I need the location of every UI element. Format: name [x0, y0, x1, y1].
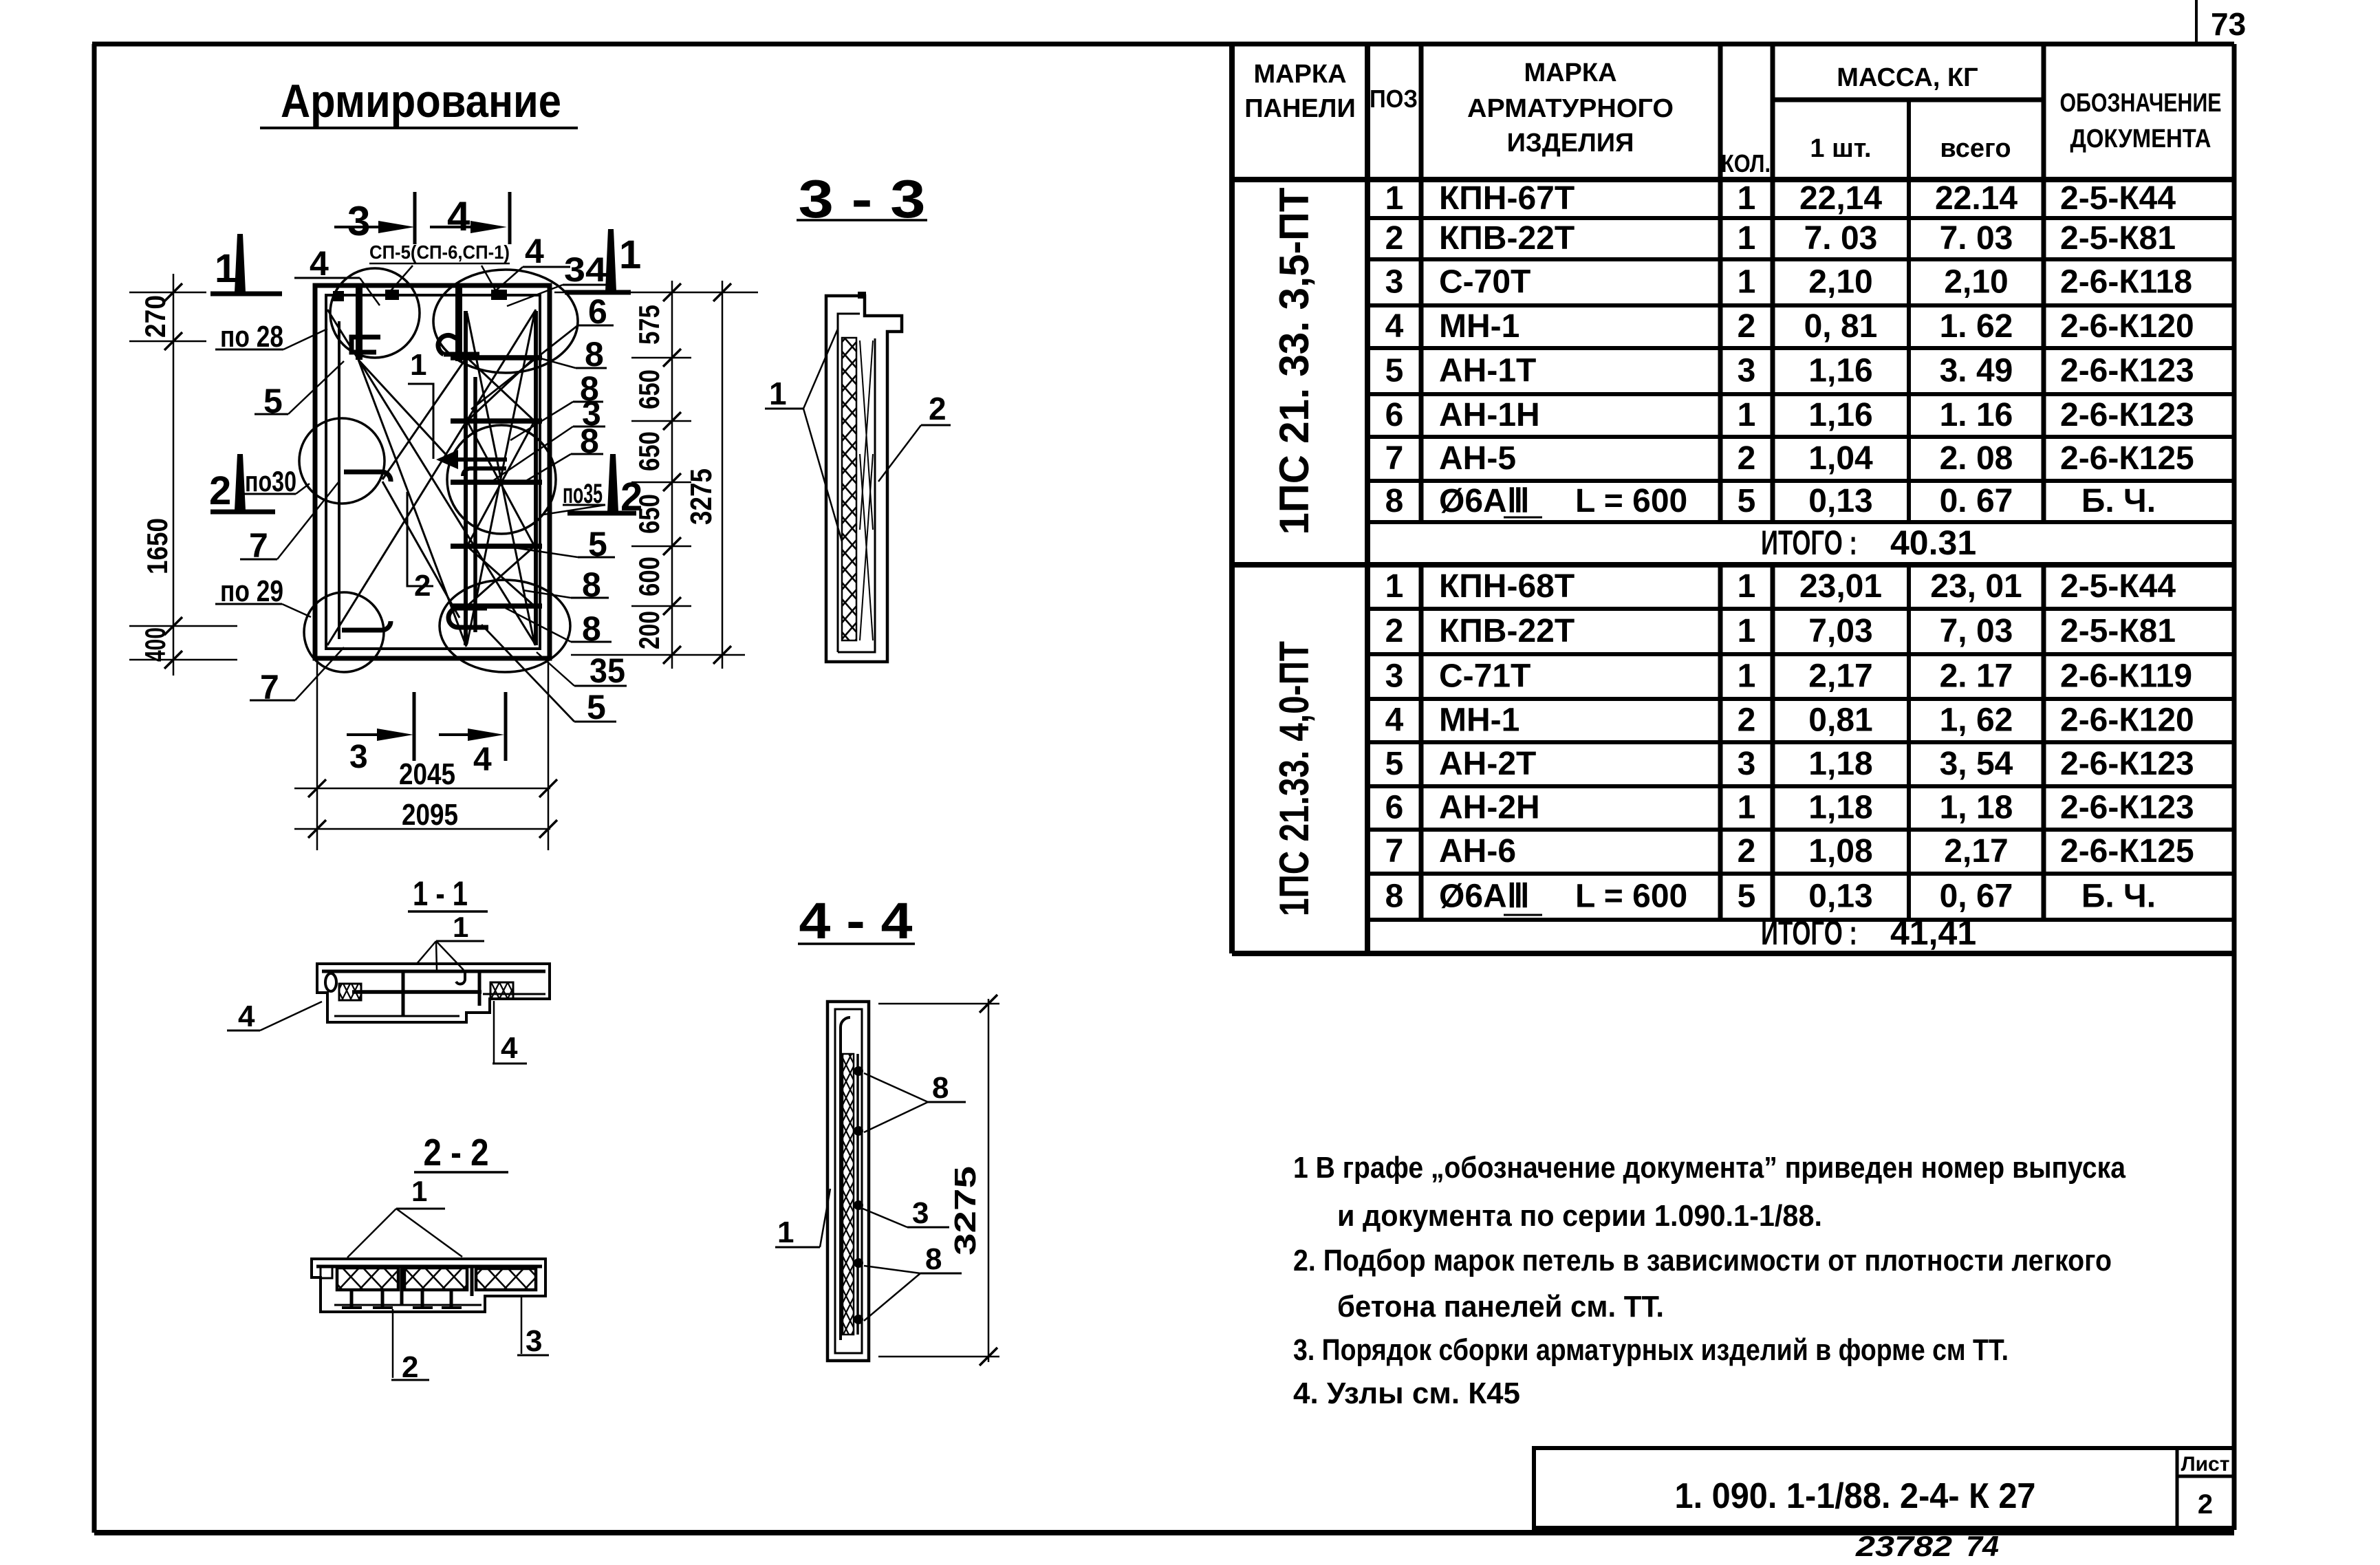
svg-text:ОБОЗНАЧЕНИЕ: ОБОЗНАЧЕНИЕ: [2060, 89, 2222, 118]
underline under III group1: [1504, 517, 1542, 519]
svg-text:4: 4: [1385, 308, 1404, 345]
svg-text:1,16: 1,16: [1808, 397, 1872, 433]
svg-text:7,03: 7,03: [1808, 613, 1872, 649]
svg-text:0,81: 0,81: [1808, 702, 1872, 739]
svg-text:1ПС 21.33. 4,0-ПТ: 1ПС 21.33. 4,0-ПТ: [1271, 641, 1317, 916]
svg-text:3275: 3275: [949, 1166, 982, 1255]
svg-text:1650: 1650: [141, 518, 173, 574]
dim tick 3275 top: [713, 283, 731, 301]
section 4-4 weld dot 5: [854, 1315, 863, 1324]
svg-text:1: 1: [1738, 613, 1756, 649]
svg-text:2-6-К123: 2-6-К123: [2060, 746, 2194, 782]
table outer left border: [1229, 44, 1235, 953]
dimension line 2045: [294, 788, 550, 790]
dim tick right 612: [663, 412, 681, 430]
svg-text:1: 1: [1738, 264, 1756, 301]
svg-text:2,10: 2,10: [1944, 264, 2008, 301]
svg-text:2-6-К120: 2-6-К120: [2060, 308, 2194, 345]
svg-text:35: 35: [589, 651, 625, 690]
table column line (кол/масса): [1771, 44, 1775, 522]
svg-text:АН-1Т: АН-1Т: [1439, 353, 1536, 389]
svg-text:4: 4: [501, 1031, 518, 1065]
hook поз3 top-left: [351, 337, 380, 352]
left dimension line: [173, 274, 175, 676]
table column line (марка/кол): [1718, 44, 1723, 522]
svg-text:2. 17: 2. 17: [1940, 658, 2013, 695]
svg-text:1. 090. 1-1/88. 2-4- К 27: 1. 090. 1-1/88. 2-4- К 27: [1675, 1476, 2036, 1516]
svg-text:2: 2: [1738, 702, 1756, 739]
dim tick left 910: [164, 617, 182, 635]
svg-text:Б. Ч.: Б. Ч.: [2081, 483, 2156, 519]
svg-text:3, 54: 3, 54: [1940, 746, 2013, 782]
section 4-4 КПВ bar: [841, 1017, 850, 1340]
table group1 row line 1: [1367, 216, 2234, 220]
svg-text:2095: 2095: [402, 798, 458, 832]
svg-text:3. Порядок сборки арматурных и: 3. Порядок сборки арматурных изделий в ф…: [1293, 1333, 2009, 1367]
extension line bottom left: [316, 662, 318, 850]
page number tick: [2195, 0, 2198, 44]
svg-text:ИТОГО :: ИТОГО :: [1761, 914, 1857, 952]
svg-text:КПВ-22Т: КПВ-22Т: [1439, 220, 1575, 257]
svg-text:7, 03: 7, 03: [1940, 613, 2013, 649]
section 1-1 left loop: [325, 973, 336, 991]
section 2-2 notch box: [321, 1266, 332, 1278]
svg-text:1: 1: [410, 348, 426, 382]
svg-text:1ПС 21. 33. 3,5-ПТ: 1ПС 21. 33. 3,5-ПТ: [1271, 188, 1317, 535]
section 2-2 box1 leg b: [381, 1290, 385, 1306]
svg-text:3: 3: [912, 1196, 929, 1230]
svg-text:40.31: 40.31: [1890, 524, 1976, 562]
svg-text:5: 5: [1738, 878, 1756, 915]
svg-text:4: 4: [447, 193, 470, 239]
section 3-3 thin strip X 1: [860, 341, 873, 530]
section 3-3 body outline: [826, 296, 902, 662]
title block outline: [1534, 1448, 2234, 1528]
svg-text:АН-2Т: АН-2Т: [1439, 746, 1536, 782]
svg-text:1. 62: 1. 62: [1940, 308, 2013, 345]
svg-text:АН-6: АН-6: [1439, 833, 1516, 870]
svg-text:4. Узлы см. К45: 4. Узлы см. К45: [1293, 1377, 1520, 1410]
ladder long diagonal 1: [467, 313, 534, 644]
svg-text:74: 74: [1966, 1530, 1999, 1562]
СП loop bar top-right: [455, 284, 462, 361]
ladder upper X: [467, 358, 534, 421]
svg-text:3: 3: [1385, 658, 1404, 695]
svg-text:4: 4: [473, 742, 492, 778]
ladder rung 1: [451, 355, 542, 360]
svg-text:2: 2: [929, 391, 946, 427]
section 2-2 divider right: [470, 1266, 474, 1296]
svg-text:73: 73: [2211, 6, 2246, 42]
hook поз5 top-right: [438, 335, 479, 354]
svg-text:0, 81: 0, 81: [1804, 308, 1878, 345]
ladder mid X 2: [467, 421, 534, 546]
svg-text:Лист: Лист: [2181, 1453, 2230, 1476]
extension line right 794: [631, 546, 691, 548]
svg-text:1,18: 1,18: [1808, 746, 1872, 782]
svg-text:С-70Т: С-70Т: [1439, 264, 1530, 301]
dim tick left 959: [164, 651, 182, 669]
svg-text:3: 3: [1738, 353, 1756, 389]
svg-text:3275: 3275: [684, 468, 718, 525]
svg-text:бетона панелей см. ТТ.: бетона панелей см. ТТ.: [1337, 1290, 1664, 1324]
ladder mid X 1: [467, 421, 534, 546]
svg-text:АРМАТУРНОГО: АРМАТУРНОГО: [1467, 94, 1674, 123]
ladder rung 4: [451, 543, 542, 549]
detail circle bottom-left: [304, 592, 384, 672]
svg-text:1: 1: [1738, 568, 1756, 605]
section 4-4 weld dot 4: [854, 1258, 863, 1268]
extension line 910: [129, 625, 237, 627]
section 2-2 body outline: [312, 1259, 545, 1312]
svg-text:ИТОГО :: ИТОГО :: [1761, 524, 1857, 562]
table column line (поз/марка): [1419, 44, 1424, 522]
anchor МН-1 black mark right: [491, 290, 507, 300]
svg-text:2: 2: [1738, 440, 1756, 477]
ladder middle bar: [473, 377, 477, 632]
svg-text:1: 1: [1738, 180, 1756, 217]
section 2-2 box2 leg a: [421, 1290, 424, 1306]
section 2-2 hatched box 2: [404, 1268, 467, 1290]
svg-text:5: 5: [1738, 483, 1756, 519]
table group1 row line 7: [1367, 479, 2234, 483]
ladder rung 3: [451, 479, 542, 485]
svg-text:8: 8: [1385, 483, 1404, 519]
section 1-1 left hatch box: [339, 984, 361, 1000]
svg-text:КПН-68Т: КПН-68Т: [1439, 568, 1575, 605]
svg-text:2,17: 2,17: [1808, 658, 1872, 695]
svg-text:2-5-К44: 2-5-К44: [2060, 568, 2176, 605]
svg-text:400: 400: [139, 627, 171, 662]
drawing sheet frame left border: [92, 44, 97, 1533]
dim tick 3275 bottom: [713, 646, 731, 664]
dim tick left 496: [164, 332, 182, 350]
extension line right 520: [631, 357, 691, 359]
section 3-3 hatch strip: [842, 338, 856, 640]
svg-text:7: 7: [1385, 440, 1404, 477]
table column line (панели/поз): [1365, 44, 1370, 953]
svg-text:L = 600: L = 600: [1575, 878, 1687, 915]
svg-text:L = 600: L = 600: [1575, 483, 1687, 519]
extension line bottom-left: [129, 659, 237, 661]
svg-text:600: 600: [633, 557, 665, 596]
section 1-1 mid hook: [456, 971, 465, 984]
svg-text:2-6-К123: 2-6-К123: [2060, 353, 2194, 389]
svg-text:1 шт.: 1 шт.: [1810, 134, 1871, 163]
section 1-1 inner band: [352, 990, 482, 994]
section 1-1 body outline: [317, 964, 550, 1022]
svg-text:Ø6АⅢ: Ø6АⅢ: [1439, 878, 1530, 915]
detail circle top-left: [330, 268, 420, 358]
svg-text:23, 01: 23, 01: [1930, 568, 2022, 605]
extension line right 701: [631, 482, 691, 484]
svg-text:0, 67: 0, 67: [1940, 878, 2013, 915]
svg-text:23,01: 23,01: [1799, 568, 1882, 605]
svg-text:22,14: 22,14: [1799, 180, 1882, 217]
section 1-1 right inner line: [483, 993, 545, 995]
detail circle mid-right: [447, 425, 556, 534]
section 4-4 inner contour: [835, 1009, 862, 1353]
svg-text:1,08: 1,08: [1808, 833, 1872, 870]
section 2-2 hatched box 1: [337, 1268, 398, 1290]
svg-text:и документа по серии 1.090.1-1: и документа по серии 1.090.1-1/88.: [1337, 1199, 1822, 1233]
table group1 row line 8: [1367, 520, 2234, 524]
section 2-2 callout 3: [521, 1296, 523, 1354]
table header bottom line: [1232, 177, 2234, 182]
svg-text:1,16: 1,16: [1808, 353, 1872, 389]
extension line right 612: [631, 420, 691, 422]
svg-text:КПН-67Т: КПН-67Т: [1439, 180, 1575, 217]
svg-text:3: 3: [349, 739, 368, 775]
table group2 row line 5: [1367, 784, 2234, 788]
section 2-2 top chord: [316, 1265, 542, 1269]
svg-text:8: 8: [932, 1071, 949, 1105]
left rebar rail: [338, 321, 340, 639]
section 3-3 thin strip X 2: [860, 454, 873, 640]
table group2 row line 1: [1367, 607, 2234, 611]
svg-text:2-6-К125: 2-6-К125: [2060, 440, 2194, 477]
svg-text:2 - 2: 2 - 2: [424, 1131, 489, 1174]
svg-text:ПОЗ: ПОЗ: [1370, 85, 1418, 113]
svg-text:575: 575: [633, 305, 665, 345]
overall dimension line 3275: [722, 281, 724, 669]
svg-text:2,10: 2,10: [1808, 264, 1872, 301]
svg-text:2: 2: [1385, 220, 1404, 257]
wire diagonal main 2: [327, 310, 536, 645]
table group2 row line 7: [1367, 872, 2234, 876]
right dimension chain line: [671, 281, 673, 669]
svg-text:2-6-К118: 2-6-К118: [2060, 264, 2192, 301]
svg-text:7. 03: 7. 03: [1940, 220, 2013, 257]
svg-text:КОЛ.: КОЛ.: [1721, 149, 1771, 177]
svg-text:1: 1: [619, 233, 641, 277]
dim tick right 881: [663, 597, 681, 615]
svg-text:1,18: 1,18: [1808, 790, 1872, 826]
svg-text:1, 62: 1, 62: [1940, 702, 2013, 739]
svg-text:4: 4: [525, 232, 544, 270]
svg-text:3: 3: [1385, 264, 1404, 301]
ladder lower X: [467, 546, 534, 606]
svg-text:2: 2: [1738, 308, 1756, 345]
svg-text:1: 1: [453, 911, 468, 943]
svg-text:МАРКА: МАРКА: [1524, 58, 1616, 87]
drawing sheet frame top border: [92, 42, 2234, 47]
svg-text:1. 16: 1. 16: [1940, 397, 2013, 433]
svg-text:2: 2: [1738, 833, 1756, 870]
ladder rung 5: [451, 603, 542, 609]
ladder rung 2: [451, 418, 542, 424]
wire diagonal left-bar to ladder foot: [358, 360, 466, 647]
svg-text:650: 650: [633, 431, 665, 471]
svg-text:41,41: 41,41: [1890, 914, 1976, 952]
anchor МН-1 black mark left: [333, 291, 344, 301]
svg-text:С-71Т: С-71Т: [1439, 658, 1530, 695]
section 4-4 right rail: [856, 1054, 859, 1335]
svg-text:1: 1: [777, 1216, 794, 1249]
svg-text:МАССА, КГ: МАССА, КГ: [1837, 63, 1978, 92]
panel inner outline: [326, 295, 540, 649]
section 4-4 weld dot 1: [854, 1066, 863, 1076]
table group1 row line 3: [1367, 303, 2234, 307]
section 4-4 weld dot 3: [854, 1200, 863, 1210]
section 2-2 hatched box 3: [476, 1269, 536, 1290]
svg-text:Б. Ч.: Б. Ч.: [2081, 878, 2156, 915]
section 1-1 divider right: [478, 971, 482, 1006]
svg-text:650: 650: [633, 494, 665, 534]
svg-text:2-6-К125: 2-6-К125: [2060, 833, 2194, 870]
wire diagonal main 1: [327, 310, 536, 645]
detail circle mid-left: [299, 418, 385, 504]
extension line bottom-right: [571, 654, 745, 656]
section 4-4 dimension line 3275: [988, 999, 990, 1362]
svg-text:МН-1: МН-1: [1439, 308, 1519, 345]
ladder long diagonal 2: [467, 313, 534, 644]
hook with arrow mid-right: [436, 450, 458, 469]
svg-text:2: 2: [1385, 613, 1404, 649]
svg-text:4: 4: [1385, 702, 1404, 739]
svg-text:1 - 1: 1 - 1: [413, 874, 468, 913]
drawing sheet frame bottom border: [94, 1530, 2234, 1535]
СП loop bar top-left: [356, 285, 363, 360]
section 3-3 inner contour: [838, 314, 875, 652]
svg-text:1: 1: [1385, 180, 1404, 217]
svg-text:АН-1Н: АН-1Н: [1439, 397, 1540, 433]
svg-text:2-6-К120: 2-6-К120: [2060, 702, 2194, 739]
svg-text:34: 34: [564, 250, 607, 289]
table group2 row line 6: [1367, 828, 2234, 832]
table group2 row line 2: [1367, 652, 2234, 656]
svg-text:5: 5: [1385, 353, 1404, 389]
svg-text:ПАНЕЛИ: ПАНЕЛИ: [1244, 94, 1356, 123]
section 3-3 top anchor mark: [858, 292, 866, 299]
leader СП label left: [389, 266, 413, 292]
section 1-1 inner top chord: [322, 970, 545, 973]
extension line bottom right: [548, 662, 550, 850]
svg-text:Армирование: Армирование: [281, 75, 561, 127]
section 2-2 callout 2: [392, 1309, 394, 1378]
dim tick right 701: [663, 473, 681, 491]
svg-text:2-5-К81: 2-5-К81: [2060, 220, 2176, 257]
svg-text:1: 1: [1738, 397, 1756, 433]
ladder left rail: [464, 311, 468, 645]
svg-text:1 В графе „обозначение докуме: 1 В графе „обозначение документа” привед…: [1293, 1151, 2125, 1185]
section 2-2 divider left: [400, 1266, 404, 1306]
title underline: [260, 127, 578, 129]
dim tick left 425: [164, 283, 182, 301]
svg-text:2-6-К119: 2-6-К119: [2060, 658, 2192, 695]
leader СП label right: [482, 266, 497, 292]
svg-text:2045: 2045: [399, 757, 455, 791]
wire diagonal left-bar to mid hook: [358, 360, 451, 460]
table масса sub-header line: [1773, 98, 2044, 102]
svg-text:2. 08: 2. 08: [1940, 440, 2013, 477]
title block лист divider: [2176, 1448, 2179, 1528]
svg-text:2,17: 2,17: [1944, 833, 2008, 870]
panel outer outline: [315, 285, 550, 658]
section 1-1 divider left: [402, 971, 405, 1016]
svg-text:2: 2: [209, 468, 231, 513]
svg-text:3. 49: 3. 49: [1940, 353, 2013, 389]
svg-text:по30: по30: [245, 465, 296, 497]
detail circle bottom-right: [440, 580, 570, 672]
drawing sheet frame right border: [2232, 44, 2237, 1530]
svg-text:0,13: 0,13: [1808, 483, 1872, 519]
svg-text:Ø6АⅢ: Ø6АⅢ: [1439, 483, 1530, 519]
extension line top-left: [129, 292, 206, 294]
svg-text:МАРКА: МАРКА: [1253, 60, 1346, 89]
detail circle top-right: [433, 270, 578, 373]
svg-text:3: 3: [526, 1324, 542, 1358]
svg-text:5: 5: [1385, 746, 1404, 782]
svg-text:1: 1: [1738, 790, 1756, 826]
svg-text:200: 200: [633, 611, 665, 649]
svg-text:всего: всего: [1940, 134, 2011, 163]
svg-text:4: 4: [238, 1000, 255, 1033]
svg-text:6: 6: [1385, 397, 1404, 433]
wire diagonal mid-left hook up: [382, 360, 465, 479]
section 2-2 bottom inner line: [334, 1304, 482, 1306]
dimension line 2095: [294, 828, 550, 830]
section 1-1 inner bottom line: [334, 1015, 459, 1017]
svg-text:МН-1: МН-1: [1439, 702, 1519, 739]
dim tick right 520: [663, 349, 681, 367]
svg-text:1: 1: [1738, 658, 1756, 695]
underline under III group2: [1504, 914, 1542, 916]
extension line по28 level: [129, 341, 206, 343]
table group1 row line 6: [1367, 435, 2234, 439]
svg-text:ДОКУМЕНТА: ДОКУМЕНТА: [2070, 125, 2211, 153]
svg-text:6: 6: [1385, 790, 1404, 826]
svg-text:7. 03: 7. 03: [1804, 220, 1878, 257]
svg-text:23782: 23782: [1855, 1530, 1952, 1562]
section 2-2 box2 leg b: [450, 1290, 453, 1306]
section 4-4 dim extension top: [878, 1003, 999, 1005]
section 4-4 dim extension bottom: [878, 1356, 999, 1358]
hook поз7 mid-left: [344, 472, 391, 482]
svg-text:270: 270: [139, 295, 171, 338]
table group2 row line 4: [1367, 740, 2234, 744]
svg-text:1,04: 1,04: [1808, 440, 1873, 477]
svg-text:0,13: 0,13: [1808, 878, 1872, 915]
svg-text:1: 1: [1385, 568, 1404, 605]
dim tick right 794: [663, 537, 681, 555]
hook поз5 bottom-right: [448, 608, 488, 627]
svg-text:4 - 4: 4 - 4: [799, 892, 913, 949]
section 1-1 right hatch box: [490, 982, 513, 999]
svg-text:8: 8: [1385, 878, 1404, 915]
table bottom border: [1232, 951, 2234, 956]
section 4-4 body outline: [827, 1002, 869, 1361]
svg-text:2. Подбор марок петель в завис: 2. Подбор марок петель в зависимости от …: [1293, 1244, 2112, 1277]
table group2 row line 3: [1367, 697, 2234, 701]
dim tick right 952: [663, 646, 681, 664]
title block лист split: [2177, 1475, 2234, 1478]
section 4-4 weld dot 2: [854, 1126, 863, 1136]
svg-text:1: 1: [215, 246, 237, 291]
anchor МН-1 black mark mid: [385, 290, 399, 300]
svg-text:8: 8: [925, 1242, 942, 1276]
svg-text:2-6-К123: 2-6-К123: [2060, 790, 2194, 826]
svg-text:2-5-К44: 2-5-К44: [2060, 180, 2176, 217]
section 2-2 box1 leg a: [350, 1290, 354, 1306]
extension line right 881: [631, 605, 691, 607]
svg-text:3: 3: [1738, 746, 1756, 782]
section 1-1 callout 4 right: [493, 1001, 495, 1063]
svg-text:АН-5: АН-5: [1439, 440, 1516, 477]
svg-text:7: 7: [1385, 833, 1404, 870]
svg-text:ИЗДЕЛИЯ: ИЗДЕЛИЯ: [1507, 129, 1634, 158]
table column line (масса/обозначение): [2042, 44, 2046, 522]
